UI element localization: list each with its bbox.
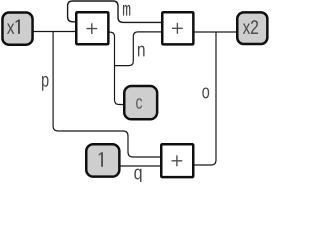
op box U1 (+) [76, 12, 108, 44]
net label m [123, 5, 130, 16]
wire U2 output to x2 [194, 31, 237, 33]
wire p: branch from x1 bus down and around to U3 left upper pin [53, 32, 161, 158]
node x1 [2, 13, 32, 45]
op box U3 (+) [161, 144, 193, 177]
node c [124, 86, 157, 119]
node 1 [86, 144, 119, 176]
net label o [202, 87, 209, 98]
op box U2 (+) [162, 12, 193, 44]
wire o: branch from U2 output bus down to U3 right pin [194, 32, 216, 165]
net label p [42, 76, 48, 91]
wire x1 to U1 [34, 31, 77, 33]
net label n [138, 46, 145, 57]
wire node 1 output to U3 left lower pin [120, 165, 161, 167]
net label q [134, 169, 141, 184]
wire m loop: U1 left upper pin over the top to U2 left upper pin [68, 1, 162, 22]
node x2 [237, 12, 267, 44]
wire n: branch from c wire up to U2 left lower pin [115, 32, 163, 66]
wire U1 output down to node c [109, 32, 125, 104]
